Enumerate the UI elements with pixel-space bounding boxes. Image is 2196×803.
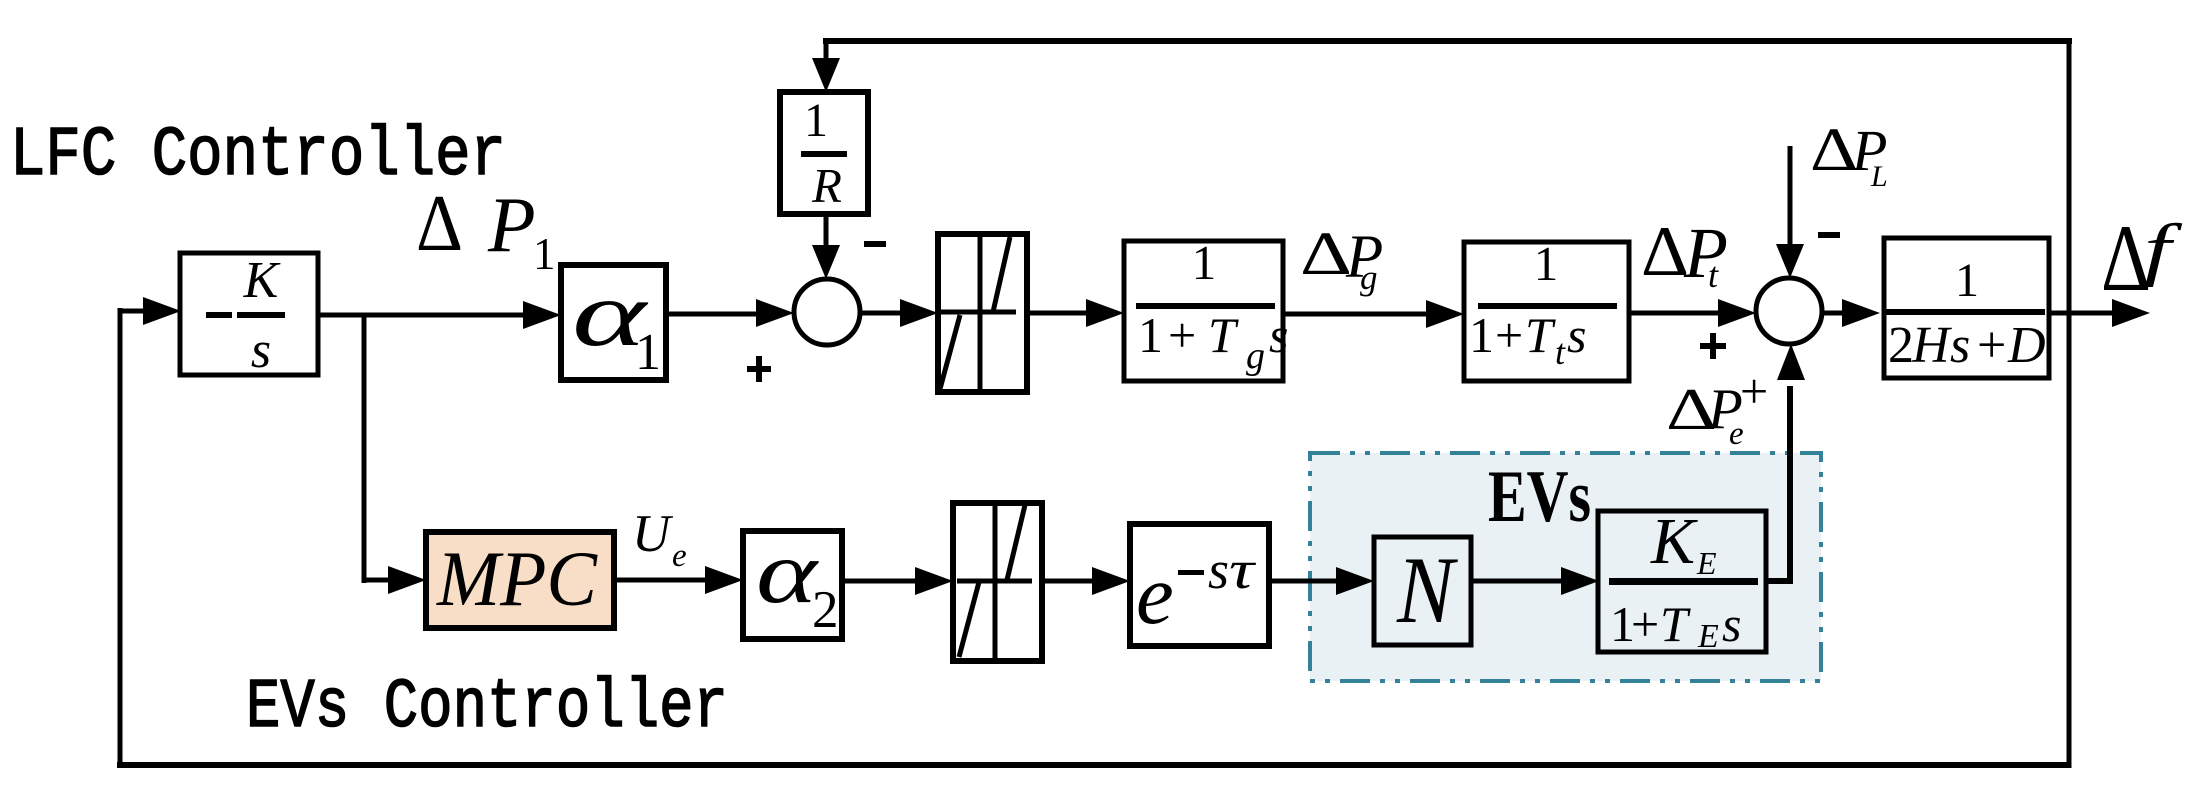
block N <box>1374 537 1471 645</box>
wire EV output up into S2 <box>1765 344 1805 581</box>
block -K/s integrator <box>180 252 318 379</box>
svg-text:s: s <box>1208 540 1229 600</box>
svg-text:Δ: Δ <box>416 180 463 268</box>
svg-text:s: s <box>1950 317 1970 374</box>
sign plus at S1 <box>747 356 771 382</box>
wire alpha1 to S1 <box>666 299 794 327</box>
label Delta f <box>2101 205 2183 311</box>
svg-text:1: 1 <box>1192 235 1217 290</box>
svg-text:E: E <box>1696 545 1717 581</box>
svg-text:s: s <box>1722 596 1741 652</box>
svg-text:2: 2 <box>1888 317 1914 374</box>
svg-text:1: 1 <box>533 229 556 279</box>
saturation block SAT1 <box>938 234 1027 392</box>
EVs dashed subsystem box <box>1310 453 1821 681</box>
label Delta Pe+ <box>1666 363 1768 452</box>
block delay e^-st <box>1130 524 1269 646</box>
block alpha2 <box>743 524 842 639</box>
svg-text:g: g <box>1246 335 1265 377</box>
wire S2 to inertia block <box>1822 299 1880 327</box>
svg-text:1: 1 <box>804 94 828 147</box>
svg-text:H: H <box>1911 317 1952 374</box>
svg-text:2: 2 <box>812 581 839 639</box>
svg-text:1: 1 <box>635 324 661 381</box>
svg-text:D: D <box>2007 317 2046 374</box>
wire bottom feedback horizontal <box>117 762 2071 768</box>
svg-text:1: 1 <box>1469 307 1494 363</box>
svg-text:1: 1 <box>1955 254 1979 307</box>
block EV aggregate KE/(1+TEs) <box>1598 505 1766 655</box>
svg-text:P: P <box>1683 213 1728 293</box>
label Delta P1 <box>416 180 556 279</box>
wire alpha2 to saturation SAT2 <box>842 567 953 595</box>
svg-text:e: e <box>1729 416 1744 452</box>
wire left feedback vertical <box>118 308 123 768</box>
wire SAT2 to delay block <box>1042 567 1130 595</box>
label Delta PL <box>1810 117 1888 193</box>
svg-text:e: e <box>1136 548 1174 642</box>
block alpha1 <box>561 263 666 381</box>
wire right feedback vertical <box>2067 38 2072 768</box>
wire governor to turbine <box>1283 300 1464 328</box>
svg-text:T: T <box>1525 307 1556 363</box>
svg-text:Δ: Δ <box>1300 221 1352 288</box>
wire top feedback horizontal <box>823 38 2072 44</box>
label Delta Pg <box>1300 221 1383 297</box>
svg-text:+: + <box>1740 363 1768 419</box>
wire branch into MPC <box>364 566 426 594</box>
svg-text:K: K <box>243 252 281 309</box>
wire S1 to saturation SAT1 <box>860 299 938 327</box>
svg-text:1: 1 <box>1534 236 1559 291</box>
svg-text:Δ: Δ <box>1810 117 1858 184</box>
summing junction S1 <box>794 279 860 345</box>
wire load disturbance into S2 <box>1776 146 1804 278</box>
label EVs Controller <box>246 669 728 748</box>
svg-text:+: + <box>1977 317 2006 374</box>
svg-text:+: + <box>1168 307 1196 363</box>
block inertia 1/(2Hs+D) <box>1884 238 2049 378</box>
svg-text:EVs Controller: EVs Controller <box>246 669 728 748</box>
wire MPC to alpha2 <box>614 566 743 594</box>
block MPC <box>426 532 614 628</box>
svg-text:e: e <box>672 538 687 574</box>
wire into -K/s input <box>118 297 181 325</box>
block turbine 1/(1+Tts) <box>1464 236 1629 381</box>
sign plus at S2 left <box>1700 333 1726 359</box>
wire -K/s to alpha1 <box>318 301 561 329</box>
sign minus at S1 <box>864 241 886 247</box>
svg-text:s: s <box>1567 307 1586 363</box>
wire branch down to MPC <box>362 313 367 583</box>
label EVs <box>1488 456 1591 538</box>
wire N to EV aggregate block <box>1471 567 1599 595</box>
svg-text:1: 1 <box>1138 307 1163 363</box>
summing junction S2 <box>1756 278 1822 344</box>
sign minus at S2 top <box>1818 232 1840 238</box>
svg-text:K: K <box>1650 505 1698 578</box>
wire turbine to summing junction S2 <box>1629 299 1756 327</box>
label LFC Controller <box>10 117 506 196</box>
svg-text:T: T <box>1660 596 1691 652</box>
wire drop from top feedback into 1/R <box>812 38 840 92</box>
wire delay to N <box>1269 567 1374 595</box>
svg-text:Δ: Δ <box>1641 213 1689 291</box>
wire 1/R to summing junction S1 <box>812 214 840 279</box>
svg-text:τ: τ <box>1229 539 1257 600</box>
svg-text:P: P <box>487 181 536 268</box>
label Delta Pt <box>1641 213 1728 295</box>
svg-text:T: T <box>1208 307 1239 363</box>
label Ue <box>632 505 687 574</box>
svg-text:U: U <box>632 505 674 563</box>
svg-text:N: N <box>1396 537 1458 643</box>
wire output Delta f <box>2049 299 2150 327</box>
svg-text:R: R <box>811 158 842 213</box>
svg-text:α: α <box>756 524 820 622</box>
svg-text:L: L <box>1870 160 1888 193</box>
block governor 1/(1+Tgs) <box>1124 235 1288 381</box>
svg-text:MPC: MPC <box>436 535 598 622</box>
saturation block SAT2 <box>953 503 1042 661</box>
svg-text:E: E <box>1697 618 1719 655</box>
svg-text:t: t <box>1708 255 1719 295</box>
svg-text:+: + <box>1631 596 1659 652</box>
svg-text:t: t <box>1555 332 1566 372</box>
svg-text:g: g <box>1360 258 1378 297</box>
block 1/R <box>780 92 868 214</box>
svg-text:s: s <box>251 322 271 379</box>
svg-text:+: + <box>1495 307 1523 363</box>
wire SAT1 to governor block <box>1027 299 1124 327</box>
svg-text:EVs: EVs <box>1488 456 1591 538</box>
